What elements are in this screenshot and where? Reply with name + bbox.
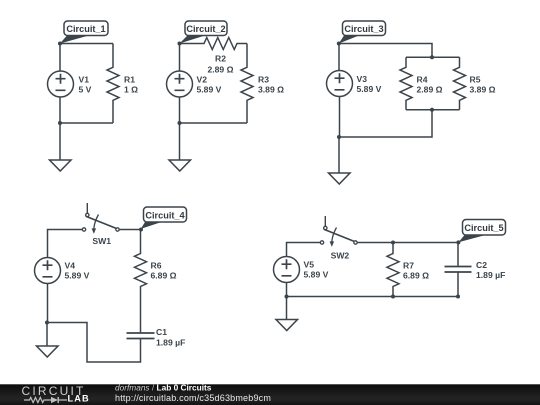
svg-text:1.89 µF: 1.89 µF [476, 270, 505, 280]
svg-text:C1: C1 [156, 327, 167, 337]
svg-text:5.89 V: 5.89 V [304, 270, 329, 280]
net label Circuit_4 [141, 207, 187, 229]
wire V4 bottom lead [47, 284, 49, 323]
capacitor C2 [445, 243, 472, 297]
svg-text:2.89 Ω: 2.89 Ω [207, 65, 233, 75]
svg-text:3.89 Ω: 3.89 Ω [470, 84, 496, 94]
voltage source V1 [48, 71, 74, 97]
svg-text:R6: R6 [151, 260, 162, 270]
svg-text:V5: V5 [304, 260, 315, 270]
resistor R5 [454, 57, 466, 110]
voltage source V4 [35, 258, 61, 284]
svg-text:Circuit_2: Circuit_2 [186, 24, 225, 34]
ground circuit 2 [169, 123, 191, 171]
wire V3 top lead [338, 44, 340, 71]
junction circuit 5 R7 top [391, 241, 395, 245]
net label Circuit_2 [180, 21, 228, 44]
wire parallel top bar [406, 56, 460, 58]
wire V1 bottom lead [59, 97, 61, 123]
svg-text:1.89 µF: 1.89 µF [156, 337, 185, 347]
svg-text:Circuit_3: Circuit_3 [344, 24, 383, 34]
voltage source V5 [274, 257, 300, 283]
voltage source V3 [327, 71, 353, 97]
resistor R3 [241, 44, 253, 124]
wire bottom rail circuit 3 [339, 110, 432, 137]
node circuit 4 bottom [45, 321, 49, 325]
junction circuit 5 C2 bottom [456, 295, 460, 299]
node circuit 5 top C2 [456, 240, 460, 244]
svg-text:2.89 Ω: 2.89 Ω [417, 84, 443, 94]
svg-text:Circuit_5: Circuit_5 [464, 223, 503, 233]
svg-text:R7: R7 [403, 260, 414, 270]
wire bottom rail circuit 5 [287, 296, 459, 298]
resistor R6 [135, 230, 147, 334]
wire C1 bottom return [47, 323, 141, 363]
svg-text:SW1: SW1 [92, 236, 111, 246]
svg-text:R2: R2 [215, 54, 226, 64]
svg-text:http://circuitlab.com/c35d63bm: http://circuitlab.com/c35d63bmeb9cm [115, 393, 271, 403]
junction circuit 3 parallel top [430, 55, 434, 59]
resistor R2 [180, 38, 248, 50]
net label Circuit_1 [60, 21, 108, 44]
node circuit 2 top [178, 42, 182, 46]
switch SW1 [82, 203, 119, 234]
switch SW2 [320, 216, 357, 247]
ground circuit 4 [37, 323, 59, 358]
wire SW1 to node [119, 229, 141, 231]
wire V3 bottom lead [339, 97, 341, 138]
net label Circuit_3 [339, 21, 386, 44]
svg-text:5.89 V: 5.89 V [65, 271, 90, 281]
wire SW2 to C2 node [357, 242, 458, 244]
node dots [45, 42, 460, 325]
wire V2 top lead [179, 44, 181, 72]
wire V4 top lead [48, 230, 83, 258]
svg-text:5 V: 5 V [79, 84, 92, 94]
footer bar [0, 384, 540, 405]
wire V2 bottom lead [179, 97, 181, 123]
capacitor C1 [127, 333, 155, 339]
svg-text:3.89 Ω: 3.89 Ω [258, 84, 284, 94]
svg-text:R4: R4 [417, 74, 428, 84]
ground circuit 5 [276, 297, 298, 331]
svg-text:LAB: LAB [68, 394, 90, 404]
svg-text:R1: R1 [124, 74, 135, 84]
svg-text:dorfmans / Lab 0 Circuits: dorfmans / Lab 0 Circuits [115, 383, 212, 393]
wire bottom rail circuit 1 [60, 122, 113, 124]
svg-text:5.89 V: 5.89 V [197, 84, 222, 94]
wire top rail circuit 3 [339, 44, 432, 58]
wire V5 top lead [287, 243, 321, 257]
svg-text:C2: C2 [476, 260, 487, 270]
svg-text:5.89 V: 5.89 V [357, 84, 382, 94]
wire parallel bottom bar [406, 109, 460, 111]
logo wire with resistor and diode [24, 397, 67, 403]
wire bottom rail circuit 2 [180, 122, 248, 124]
svg-text:V2: V2 [197, 74, 208, 84]
svg-text:V4: V4 [65, 261, 76, 271]
node circuit 3 top [337, 42, 341, 46]
wire top rail circuit 1 [60, 43, 113, 45]
junction circuit 5 R7 bottom [391, 295, 395, 299]
svg-text:SW2: SW2 [331, 251, 350, 261]
net label Circuit_5 [459, 220, 506, 243]
svg-text:R3: R3 [258, 74, 269, 84]
node circuit 4 switch output [139, 228, 143, 232]
resistor R1 [107, 44, 119, 124]
svg-text:Circuit_4: Circuit_4 [145, 210, 185, 220]
resistor R7 [387, 243, 399, 297]
svg-text:R5: R5 [470, 74, 481, 84]
resistor R4 [400, 57, 412, 110]
node circuit 2 bottom [178, 121, 182, 125]
junction circuit 3 parallel bottom [430, 108, 434, 112]
node circuit 1 top [58, 42, 62, 46]
node circuit 3 bottom [337, 135, 341, 139]
ground circuit 3 [329, 137, 351, 184]
node circuit 5 bottom V5 [285, 295, 289, 299]
wire V1 top lead [59, 44, 61, 72]
svg-text:1 Ω: 1 Ω [124, 84, 138, 94]
node circuit 1 bottom [58, 121, 62, 125]
svg-text:6.89 Ω: 6.89 Ω [151, 270, 177, 280]
voltage source V2 [167, 71, 193, 97]
svg-text:V3: V3 [357, 74, 368, 84]
wire V5 bottom lead [286, 283, 288, 297]
svg-text:Circuit_1: Circuit_1 [66, 24, 105, 34]
svg-text:6.89 Ω: 6.89 Ω [403, 270, 429, 280]
ground circuit 1 [50, 123, 72, 171]
svg-text:V1: V1 [79, 74, 90, 84]
